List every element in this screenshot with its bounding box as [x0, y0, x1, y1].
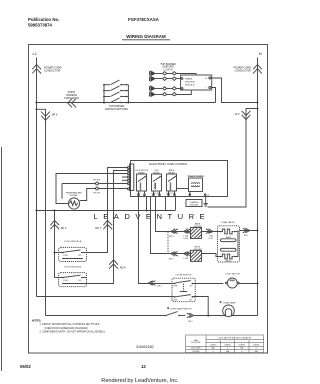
svg-text:COM: COM — [63, 280, 68, 282]
svg-text:LOW: LOW — [184, 238, 189, 240]
wire main bus L1 — [37, 102, 216, 104]
svg-text:Publication No.: Publication No. — [28, 17, 59, 22]
wire neutral mid bus — [37, 210, 176, 212]
connector bake valve — [206, 229, 214, 240]
bake igniter — [191, 223, 203, 239]
wire EOC drop to bake igniter — [156, 197, 171, 232]
svg-text:COM-NC: COM-NC — [224, 344, 231, 346]
svg-text:IGNITER SWITCHES: IGNITER SWITCHES — [105, 108, 128, 111]
svg-text:LOCK SWITCH B: LOCK SWITCH B — [64, 266, 82, 268]
svg-text:316002180: 316002180 — [136, 345, 154, 349]
publication number block — [28, 17, 59, 28]
svg-text:P8 OR: P8 OR — [93, 193, 100, 195]
lock motor switch contacts table — [186, 335, 264, 353]
connector BK 6 — [41, 112, 58, 121]
spark ignition module — [181, 75, 212, 90]
connector power cord conductor left — [32, 65, 61, 74]
svg-text:NO: NO — [79, 280, 82, 282]
svg-text:LOCK SWITCH A: LOCK SWITCH A — [64, 240, 82, 243]
svg-text:Rendered by LeadVenture, Inc.: Rendered by LeadVenture, Inc. — [101, 378, 179, 384]
svg-text:LEADVENTURE: LEADVENTURE — [94, 212, 211, 221]
connector pin strip P8 — [128, 164, 134, 191]
top burner ignitor row 4 — [150, 90, 192, 96]
wire L1 lower to door switch — [37, 296, 175, 298]
wire pin5 stub — [122, 179, 128, 181]
svg-text:BK 1: BK 1 — [158, 286, 163, 288]
node junction valve N — [257, 230, 259, 232]
svg-text:WIRING DIAGRAM: WIRING DIAGRAM — [126, 34, 166, 39]
connector power cord conductor right — [234, 65, 262, 74]
svg-text:COM-NO: COM-NO — [238, 344, 245, 346]
svg-text:PROBE: PROBE — [70, 195, 78, 197]
wire into lock B com — [55, 277, 63, 279]
node junction bus lock feed — [54, 210, 56, 212]
svg-text:MODULE: MODULE — [185, 85, 195, 87]
svg-text:2. COMPONENTS WITH * DO NOT: 2. COMPONENTS WITH * DO NOT APPEAR ON AL… — [40, 330, 106, 333]
svg-text:OVEN DOOR CLOSED AND UNLOCKED.: OVEN DOOR CLOSED AND UNLOCKED. — [45, 327, 89, 330]
switch row 3 — [103, 92, 128, 98]
wire EOC drop 6 — [175, 197, 177, 211]
valve coil broil — [220, 256, 222, 258]
svg-text:BK 6: BK 6 — [52, 114, 58, 117]
svg-text:CONDUCTOR: CONDUCTOR — [44, 70, 60, 73]
svg-text:WHITE: WHITE — [68, 92, 76, 94]
notes — [32, 320, 106, 334]
switch row 1 — [103, 80, 128, 86]
svg-text:COM: COM — [173, 299, 178, 301]
svg-text:BK 5: BK 5 — [188, 321, 193, 323]
wire into lock A com — [55, 252, 63, 254]
svg-text:L: L — [205, 88, 207, 90]
connector pair broil row — [169, 252, 190, 261]
svg-text:LOCKED: LOCKED — [192, 351, 200, 353]
wire lamp feed — [194, 315, 257, 317]
wire module L to bus — [211, 88, 216, 103]
svg-text:CHASSIS: CHASSIS — [190, 201, 199, 204]
wire igniter to valve — [202, 231, 221, 233]
lock switch B — [59, 266, 87, 286]
connector RD 8 — [109, 260, 126, 269]
chassis ground — [186, 197, 208, 207]
svg-text:NO: NO — [190, 285, 193, 287]
svg-text:RD 1: RD 1 — [244, 235, 248, 237]
svg-text:N: N — [259, 51, 262, 56]
connector BK 1 on door feed — [148, 281, 162, 288]
svg-text:BROIL: BROIL — [226, 260, 232, 262]
wire pin4 stub — [122, 176, 128, 178]
wire door NO to lock motor — [192, 283, 223, 285]
svg-text:OVEN LAMP: OVEN LAMP — [223, 301, 236, 304]
node junction bus left — [36, 210, 38, 212]
connector pair bake row — [169, 229, 190, 240]
node junction bus EOC — [146, 210, 148, 212]
wire probe top — [56, 174, 128, 204]
svg-text:DOOR SWITCH: DOOR SWITCH — [176, 275, 192, 277]
harness link dashed — [167, 232, 169, 254]
connector W 2 — [235, 111, 250, 120]
svg-text:( 1 OF 4 ): ( 1 OF 4 ) — [163, 68, 173, 71]
svg-text:COM-NC: COM-NC — [253, 344, 260, 346]
transformer T1 — [187, 175, 209, 197]
wire probe return with connector — [80, 189, 128, 201]
svg-text:W 2: W 2 — [235, 113, 240, 116]
node junction module N — [257, 102, 259, 104]
wire module N to neutral — [211, 78, 258, 103]
top burner ignitor row 1 — [150, 71, 197, 76]
svg-text:N: N — [205, 78, 207, 80]
svg-text:CONDUCTOR: CONDUCTOR — [235, 70, 251, 73]
svg-text:DUAL VALVE: DUAL VALVE — [221, 221, 235, 224]
svg-text:COM: COM — [173, 285, 178, 287]
svg-text:IGNITION: IGNITION — [185, 82, 195, 84]
svg-text:COM-NO: COM-NO — [210, 344, 217, 346]
svg-text:FGF378CXASA: FGF378CXASA — [128, 17, 159, 22]
svg-text:POSITION: POSITION — [191, 342, 201, 344]
wire branch to BK6 — [37, 109, 46, 315]
svg-text:LOCK MOTOR SWITCH CONTACTS: LOCK MOTOR SWITCH CONTACTS — [218, 336, 252, 339]
svg-text:RD 8: RD 8 — [120, 266, 126, 269]
wire N vertical — [257, 58, 259, 316]
node junction lock A com — [54, 252, 56, 254]
svg-text:NC: NC — [190, 299, 193, 301]
svg-text:TEMPERATURE: TEMPERATURE — [65, 191, 82, 194]
wire valve to N — [240, 230, 258, 232]
node junction lock motor N — [257, 283, 259, 285]
broil igniter — [191, 246, 203, 261]
svg-text:L1: L1 — [33, 51, 38, 56]
wire EOC drop to door switch — [139, 197, 175, 284]
door switch — [172, 275, 195, 302]
top burner ignitor row 3 — [150, 86, 183, 91]
svg-text:NO: NO — [79, 255, 82, 257]
top burner ignitor row 2 — [150, 77, 183, 82]
oven lamp — [220, 301, 237, 316]
wire lock switch feed — [54, 211, 56, 278]
oven lamp line — [46, 315, 166, 317]
bake igniter row wire — [170, 231, 191, 233]
temperature probe sensor — [65, 191, 82, 209]
svg-text:06/02: 06/02 — [20, 364, 31, 369]
switch row 2 — [103, 86, 128, 92]
connector valve N — [243, 228, 250, 237]
wire broil igniter to valve — [202, 254, 221, 257]
svg-text:BK 3: BK 3 — [169, 259, 174, 261]
wire relay to transformer — [177, 188, 189, 190]
connector RD 7 — [95, 221, 112, 231]
wire probe mid with connector — [62, 183, 128, 185]
svg-text:HARNESS: HARNESS — [66, 94, 78, 97]
wire coil returns — [236, 231, 239, 257]
connector white harness conductor — [64, 92, 79, 107]
svg-text:GROUND: GROUND — [190, 205, 199, 207]
top burner igniter switches — [103, 80, 129, 111]
relay 3 bake relay — [167, 169, 177, 197]
svg-text:LOCK MOTOR: LOCK MOTOR — [225, 274, 240, 276]
valve coil bake — [220, 231, 222, 233]
main border frame — [29, 45, 268, 354]
wire door NC to lamp line — [192, 297, 208, 316]
title WIRING DIAGRAM — [122, 34, 170, 40]
connector BK 4 — [50, 221, 67, 231]
svg-text:ELECTRONIC OVEN CONTROL: ELECTRONIC OVEN CONTROL — [149, 162, 188, 166]
svg-text:1. CIRCUIT SHOWN WITH ALL CON: 1. CIRCUIT SHOWN WITH ALL CONTROLS SET T… — [40, 323, 100, 326]
relay 2 DLB relay — [152, 170, 162, 197]
svg-text:BK 4: BK 4 — [61, 227, 67, 230]
broil igniter row wire — [170, 253, 191, 255]
lock switch A — [59, 240, 87, 261]
node junction W2 branch — [257, 108, 259, 110]
svg-text:OVEN LAMP SWITCH: OVEN LAMP SWITCH — [171, 308, 192, 311]
svg-text:BA LT1 C1: BA LT1 C1 — [167, 192, 176, 195]
wire EOC drop to bus — [146, 197, 148, 211]
node junction door NC lamp — [207, 315, 209, 317]
svg-text:COM: COM — [63, 255, 68, 257]
svg-text:SPARK: SPARK — [185, 78, 193, 81]
svg-text:L1B L1W: L1B L1W — [152, 193, 160, 195]
switch row 4 — [103, 98, 127, 104]
svg-text:5995373874: 5995373874 — [28, 23, 53, 28]
scan edge artifact — [1, 147, 3, 371]
oven lamp switch — [165, 307, 192, 316]
wire EOC drop to broil igniter — [151, 197, 171, 254]
wire L1 vertical — [36, 58, 38, 297]
node junction L1 bus — [36, 102, 38, 104]
svg-text:RD 7: RD 7 — [95, 227, 101, 230]
svg-text:L1V: L1V — [137, 193, 141, 195]
svg-text:UNLOCKED: UNLOCKED — [191, 348, 202, 350]
svg-text:NOTES:: NOTES: — [32, 320, 42, 323]
label top burner ignitors — [160, 63, 176, 72]
svg-text:CONDUCTOR: CONDUCTOR — [64, 98, 79, 100]
relay 1 lock motor relay — [135, 170, 149, 197]
svg-text:BAKE: BAKE — [169, 169, 175, 172]
svg-text:1 CM: 1 CM — [183, 258, 188, 260]
node junction BK6 branch — [36, 108, 38, 110]
svg-text:BK 8: BK 8 — [169, 236, 174, 238]
lock motor — [225, 274, 257, 288]
dual valve — [218, 221, 240, 262]
connector BK 5 — [187, 313, 194, 323]
svg-text:P8 GN: P8 GN — [93, 180, 100, 182]
wire pin1 to RD7 drop — [87, 168, 128, 253]
electronic oven control box — [131, 161, 228, 197]
wire W2 branch — [208, 109, 258, 208]
wire pin2 to RD8 drop — [87, 171, 128, 284]
svg-text:LOW: LOW — [209, 238, 214, 240]
svg-text:12: 12 — [141, 364, 146, 369]
temperature probe circuit — [56, 174, 128, 204]
wire EOC drop 5 — [165, 197, 167, 211]
